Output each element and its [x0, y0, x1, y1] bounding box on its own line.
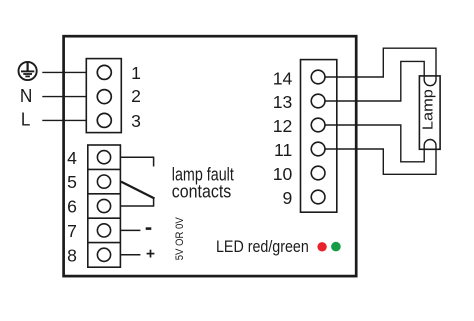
- svg-text:3: 3: [131, 111, 141, 131]
- svg-text:Lamp: Lamp: [421, 89, 437, 130]
- svg-text:5: 5: [67, 172, 77, 192]
- svg-text:1: 1: [131, 63, 141, 83]
- svg-text:14: 14: [273, 68, 293, 88]
- svg-text:13: 13: [273, 92, 293, 112]
- svg-text:L: L: [21, 110, 31, 130]
- svg-text:11: 11: [274, 140, 292, 160]
- svg-text:N: N: [20, 86, 33, 106]
- svg-text:12: 12: [273, 116, 293, 136]
- svg-text:7: 7: [67, 221, 77, 241]
- svg-text:2: 2: [131, 86, 141, 106]
- svg-text:8: 8: [67, 246, 77, 266]
- svg-text:6: 6: [67, 197, 77, 217]
- svg-text:9: 9: [283, 188, 293, 208]
- svg-text:LED red/green: LED red/green: [216, 237, 309, 256]
- svg-text:5V OR 0V: 5V OR 0V: [174, 217, 186, 260]
- svg-text:4: 4: [67, 148, 77, 168]
- svg-text:10: 10: [273, 164, 293, 184]
- svg-text:contacts: contacts: [172, 182, 232, 202]
